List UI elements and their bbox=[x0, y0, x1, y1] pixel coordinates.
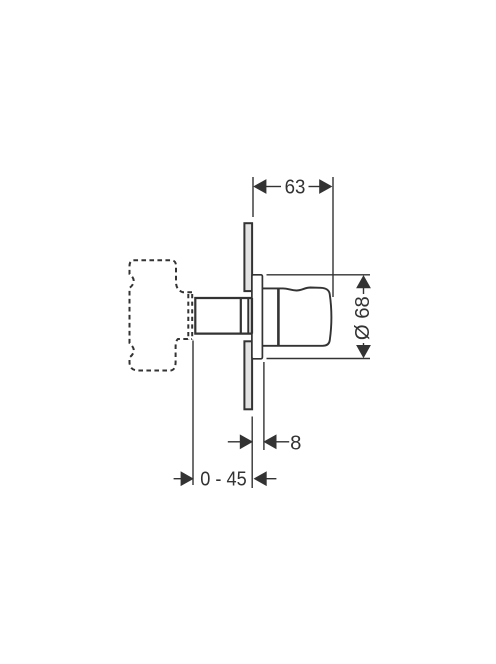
dimension Ø68 : down arrow bbox=[356, 345, 371, 358]
svg-text:63: 63 bbox=[285, 176, 306, 198]
extension sleeve body bbox=[194, 297, 251, 335]
dimension 8 : right extension line bbox=[263, 362, 265, 450]
rosette left edge heavy bbox=[251, 298, 253, 334]
dimension 0-45 : left extension line bbox=[192, 341, 194, 486]
dimension Ø68 : up arrow bbox=[356, 275, 371, 288]
dimension 63 : right arrow bbox=[319, 179, 332, 194]
dimension 8 : right tail bbox=[276, 441, 289, 443]
dimension Ø68 : line bottom stub bbox=[363, 343, 365, 346]
dimension 8 : left arrow bbox=[240, 434, 253, 449]
svg-text:Ø 68: Ø 68 bbox=[352, 296, 374, 340]
dimension 0-45 : right tail bbox=[266, 478, 276, 480]
sleeve adapter vertical bbox=[247, 298, 249, 334]
dimension 0-45 : right arrow bbox=[254, 471, 267, 486]
dimension 8 : left tail bbox=[228, 441, 241, 443]
escutcheon plate lower segment bbox=[244, 341, 252, 409]
dimension 63 : line right segment bbox=[309, 186, 321, 188]
dimension 8 : left extension line bbox=[251, 417, 253, 489]
escutcheon plate upper segment bbox=[244, 223, 252, 291]
dimension 63 : left extension line bbox=[252, 177, 254, 217]
dashed concealed valve body outline bbox=[130, 260, 193, 370]
dimension 0-45 : left tail bbox=[174, 478, 182, 480]
dimension Ø68 : line top stub bbox=[363, 288, 365, 295]
dimension 63 : line left segment bbox=[266, 186, 281, 188]
dimension 8 : right arrow bbox=[263, 434, 276, 449]
dimension Ø68 : top extension line bbox=[267, 274, 371, 276]
dimension 63 : left arrow bbox=[253, 179, 266, 194]
dimension Ø68 : bottom extension line bbox=[267, 358, 371, 360]
svg-text:0 - 45: 0 - 45 bbox=[200, 469, 247, 491]
hidden sleeve end dashed line 1 bbox=[187, 294, 189, 340]
svg-text:8: 8 bbox=[290, 432, 301, 454]
handle body bbox=[263, 288, 332, 346]
dimension 0-45 : left arrow bbox=[181, 471, 194, 486]
hidden sleeve end dashed line 2 bbox=[191, 294, 193, 340]
dimension 63 : right extension line bbox=[332, 177, 334, 297]
sleeve end vertical bbox=[240, 298, 242, 334]
rosette hub (Ø68) bbox=[252, 275, 263, 359]
handle collar line bbox=[277, 289, 280, 346]
